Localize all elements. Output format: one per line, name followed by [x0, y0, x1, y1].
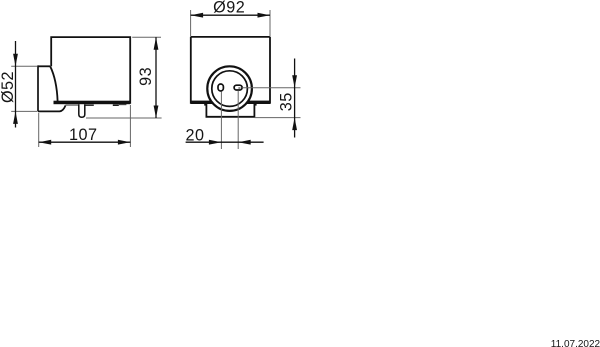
- svg-text:Ø52: Ø52: [0, 71, 17, 103]
- svg-text:20: 20: [185, 127, 204, 145]
- svg-text:107: 107: [69, 126, 98, 144]
- svg-text:93: 93: [137, 67, 155, 86]
- svg-text:35: 35: [278, 92, 296, 111]
- svg-text:Ø92: Ø92: [213, 0, 245, 16]
- svg-text:11.07.2022: 11.07.2022: [551, 339, 600, 347]
